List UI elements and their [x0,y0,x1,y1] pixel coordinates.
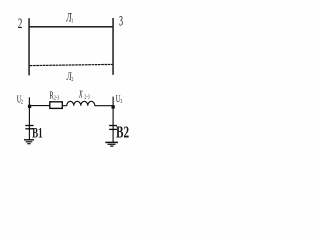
svg-text:B1: B1 [32,124,43,141]
svg-text:2-3: 2-3 [84,94,90,101]
svg-text:1: 1 [71,18,73,25]
svg-text:X: X [78,88,83,100]
svg-text:R: R [49,89,53,101]
svg-text:3: 3 [119,13,123,29]
svg-text:3: 3 [120,98,122,105]
svg-text:2: 2 [71,76,73,83]
svg-text:2: 2 [21,99,23,106]
svg-text:B2: B2 [116,123,129,142]
svg-text:2-3: 2-3 [54,95,60,102]
svg-text:2: 2 [18,15,22,32]
